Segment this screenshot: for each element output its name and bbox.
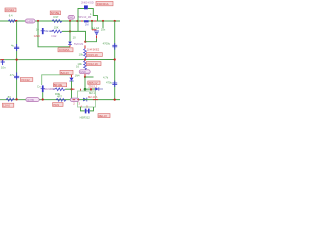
node junction (71.5,89.2) <box>70 88 72 90</box>
net label red box ZD5.1 <box>88 81 100 85</box>
wire y=41.7 to capacitor C5 column <box>85 38 96 41</box>
svg-text:M2.1: M2.1 <box>89 91 95 95</box>
svg-text:KSD301A: KSD301A <box>97 2 109 6</box>
diode D2 column bottom module <box>71 75 73 78</box>
thermostat SW1 blue square <box>84 5 88 9</box>
resistor R8 on bottom bus <box>56 99 66 102</box>
net label red box top-right <box>96 1 113 6</box>
net label CON5A red box on wire y=46.8 <box>58 48 73 52</box>
svg-text:10: 10 <box>36 28 39 32</box>
svg-text:47u: 47u <box>10 73 15 77</box>
svg-text:1N4: 1N4 <box>75 74 80 78</box>
capacitor C3 hanging below left wire <box>1 60 5 65</box>
varistor RV1 blue element on bus <box>84 20 89 22</box>
net label red box below R7 <box>2 103 13 107</box>
svg-text:ZD15.1: ZD15.1 <box>88 84 97 88</box>
svg-text:0.97: 0.97 <box>53 15 59 19</box>
node junction (103,21) <box>102 20 104 22</box>
bottom bus y=99.6 <box>0 99 120 101</box>
wire column x=103 short stub <box>102 21 104 28</box>
wire top sub-loop <box>78 9 84 22</box>
svg-text:CE100: CE100 <box>45 29 54 33</box>
svg-text:RELAY: RELAY <box>99 114 108 118</box>
node junction (91,89.2) <box>90 88 92 90</box>
net label red box mid-left <box>20 78 33 82</box>
resistor R2 on top bus <box>52 20 62 23</box>
svg-text:4u: 4u <box>11 43 14 47</box>
net label red box bottom-right <box>98 114 110 118</box>
net label red box above R2 <box>50 11 60 15</box>
wire from SW1 to corner <box>88 9 98 22</box>
svg-text:FUSE1: FUSE1 <box>6 8 15 12</box>
wire y=31.4 from R3 to corner x=85.5 <box>62 31 86 41</box>
pin segment left end <box>1 59 5 61</box>
diode D1 on column x=70 <box>68 42 72 45</box>
svg-text:BA12V: BA12V <box>61 71 70 75</box>
svg-text:83: 83 <box>8 95 11 99</box>
svg-text:10n: 10n <box>1 65 6 69</box>
resistor R3 on wire y=31.4 <box>52 30 62 33</box>
bottom module light wire loop <box>42 75 72 85</box>
svg-text:10n: 10n <box>101 28 106 32</box>
pin of D1 down to wire y=46.8 <box>69 45 71 47</box>
net label red box VREF2 <box>86 62 101 66</box>
svg-text:4.7k: 4.7k <box>103 75 109 79</box>
node junction (85,59.5) <box>84 58 86 60</box>
svg-text:Ln A4: Ln A4 <box>92 26 99 30</box>
LED diode D4 inside U1 on bus <box>83 98 87 102</box>
capacitor C4 CE100 blue bar <box>41 28 45 34</box>
left rail wire x=16.6 <box>16 21 18 99</box>
svg-text:10k: 10k <box>79 53 84 57</box>
svg-text:1N4 5KE2: 1N4 5KE2 <box>87 47 100 51</box>
optocoupler U1 box <box>78 91 96 107</box>
wire column x=38 from bus to corner then right <box>38 21 70 47</box>
wire column x=92 from bus down <box>91 21 93 30</box>
node junction (70,31.4) <box>69 30 71 32</box>
node junction (16.6,99.4) <box>16 98 18 100</box>
diode D2 <box>69 78 73 81</box>
svg-text:2N60 KSD: 2N60 KSD <box>81 1 94 5</box>
wire column x=78 down to y=31.4 <box>77 21 79 31</box>
svg-text:HSR312: HSR312 <box>80 115 91 119</box>
svg-text:080: 080 <box>69 15 74 19</box>
svg-text:VO15.1K: VO15.1K <box>87 53 98 57</box>
red pin segments at U1 left <box>73 99 76 101</box>
svg-text:6.4: 6.4 <box>9 13 13 17</box>
resistor R6 <box>55 88 65 91</box>
wire y=89.2 left part with resistor R6 <box>53 88 55 90</box>
wire top bus y=21 <box>0 20 120 22</box>
svg-text:Cn: Cn <box>37 84 41 88</box>
resistor R1 <box>8 20 15 23</box>
node junction (92,21) <box>91 20 93 22</box>
resistor R7 on bottom bus <box>6 98 14 101</box>
node junction (77.5,21) <box>76 20 78 22</box>
capacitor C1 on left rail <box>14 44 19 51</box>
purple oval at U1 left edge <box>70 98 79 101</box>
svg-text:VCC12: VCC12 <box>21 78 30 82</box>
pin segment on bus <box>94 20 97 22</box>
svg-text:4R7: 4R7 <box>57 94 62 98</box>
svg-text:M2.10A: M2.10A <box>88 95 97 99</box>
wire y=89.2 right part <box>84 88 95 90</box>
fuse F1 purple oval on top bus <box>25 19 35 23</box>
wire mid horizontal y=59.6 <box>0 59 115 61</box>
wire column x=70 from bus down <box>69 21 71 42</box>
svg-text:10: 10 <box>73 36 76 40</box>
svg-text:GND: GND <box>34 34 40 38</box>
wire x=85 down <box>84 77 86 91</box>
red pin below C5 <box>96 35 98 38</box>
red pin above resistor R4 <box>84 45 86 48</box>
node junction (114.7,21) <box>114 20 116 22</box>
wire y=77 stub right <box>85 76 94 78</box>
red pin stub at box top x=80.5 <box>80 89 82 91</box>
capacitor C7 on right rail <box>112 81 117 87</box>
wire below C8 to bottom bus <box>42 92 44 99</box>
U1 bottom pins and crystal Y1 <box>81 107 85 111</box>
pin stub left of R3 <box>50 30 52 32</box>
red pin at U1 right edge <box>93 99 98 101</box>
net label red box VREF1 <box>86 53 102 57</box>
svg-text:CON15A: CON15A <box>59 48 70 52</box>
node junction (114.7,59.5) <box>114 58 116 60</box>
node junction (70,21) <box>69 20 71 22</box>
fuse F2 purple oval on bottom bus <box>26 98 39 102</box>
node junction (16.6,59.6) <box>16 59 18 61</box>
capacitor C5 <box>94 31 99 35</box>
pin segment on bus <box>81 20 83 22</box>
svg-text:CN7B: CN7B <box>27 98 34 102</box>
node junction (71.5,99.5) <box>70 98 72 100</box>
crystal Y1 blue element <box>85 109 90 114</box>
wire below D2 <box>71 81 73 100</box>
red pin from junction down to box <box>90 89 92 91</box>
capacitor C2 on left rail <box>14 73 19 80</box>
wire from R6 to junction <box>65 88 71 90</box>
svg-text:16: 16 <box>76 65 79 69</box>
capacitor C8 blue bar bottom-left module <box>41 85 45 92</box>
red pin jog to C5 <box>92 29 97 31</box>
red pin below oval <box>84 74 86 77</box>
net label PWR top-left <box>5 8 16 12</box>
node junction (42.7,99.5) <box>42 98 44 100</box>
svg-text:VO12.1K: VO12.1K <box>87 62 98 66</box>
svg-text:ZD5.1V: ZD5.1V <box>88 81 97 85</box>
right rail wire x=114.7 <box>114 21 116 100</box>
net label red box above R6 <box>54 83 67 87</box>
net label purple oval above bus <box>68 15 75 19</box>
red pin right of junction <box>72 88 75 90</box>
node junction (85.3,41.7) <box>84 41 86 43</box>
svg-text:5V0 M1: 5V0 M1 <box>74 42 84 46</box>
net label red box below R8 <box>53 103 63 107</box>
resistor R5 vertical <box>84 61 87 70</box>
node junction (85,89.2) <box>84 88 87 91</box>
svg-text:P1IN: P1IN <box>53 103 59 107</box>
node junction (85,77) <box>84 76 86 78</box>
pin right of D3 <box>99 88 103 90</box>
svg-text:12V:0: 12V:0 <box>3 104 10 108</box>
svg-text:0.47R: 0.47R <box>26 19 33 23</box>
node junction (38,21) <box>37 20 39 22</box>
capacitor C6 on right rail <box>112 43 117 50</box>
resistor R4 vertical <box>84 49 87 59</box>
net label red box BAD2N60 <box>60 70 73 75</box>
svg-text:SP15E: SP15E <box>51 11 60 15</box>
svg-text:15K: 15K <box>54 26 59 30</box>
svg-text:BR10E: BR10E <box>54 83 63 87</box>
node junction (114.7,99.6) <box>114 99 116 101</box>
svg-text:470u: 470u <box>106 80 112 84</box>
svg-text:4700u: 4700u <box>103 41 111 45</box>
zener diode D3 <box>95 87 99 90</box>
purple oval below R5 <box>79 70 90 74</box>
svg-text:H2: H2 <box>86 72 90 76</box>
node junction (16.3,21) <box>15 20 17 22</box>
svg-text:N12: N12 <box>52 34 57 38</box>
